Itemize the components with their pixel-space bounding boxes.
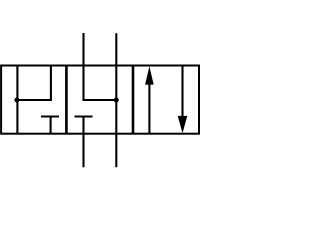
position divider 2 bbox=[132, 66, 135, 134]
valve body outer box bbox=[1, 66, 199, 134]
blocked port T1 stem bbox=[50, 117, 52, 134]
wire through-line left section bbox=[16, 66, 18, 134]
blocked port T2 bar bbox=[75, 115, 93, 117]
position divider 1 bbox=[65, 66, 68, 134]
wire pilot line B through bbox=[115, 33, 117, 167]
node junction dot middle bbox=[114, 98, 119, 103]
up arrow head bbox=[145, 66, 154, 84]
node junction dot left bbox=[14, 98, 19, 103]
wire bent branch left section bbox=[17, 66, 51, 101]
down arrow head bbox=[178, 116, 188, 133]
blocked port T1 bar bbox=[41, 115, 59, 117]
up arrow shaft bbox=[148, 84, 150, 134]
blocked port T2 stem bbox=[82, 117, 84, 168]
wire pilot line A bent bbox=[84, 33, 117, 100]
down arrow shaft bbox=[181, 66, 183, 117]
